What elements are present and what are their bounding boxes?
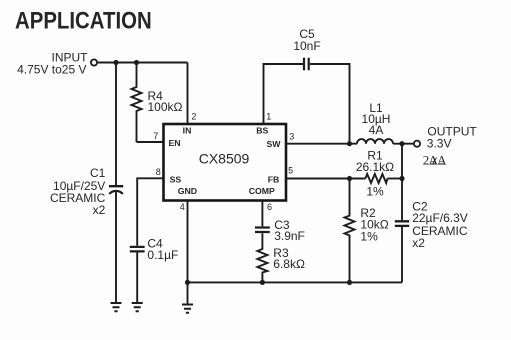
- svg-text:0.1µF: 0.1µF: [147, 248, 178, 262]
- label C5: [293, 27, 320, 53]
- svg-text:C1: C1: [90, 166, 106, 180]
- pin label SW: [267, 139, 282, 149]
- pin number 8: [156, 167, 161, 177]
- svg-text:6.8kΩ: 6.8kΩ: [273, 257, 305, 271]
- svg-text:x2: x2: [412, 236, 425, 250]
- ground (C1): [111, 303, 122, 311]
- pin number 3: [289, 132, 294, 142]
- node GND-rail: [185, 280, 190, 285]
- wire output vertical: [401, 144, 403, 283]
- svg-text:22µF/6.3V: 22µF/6.3V: [412, 211, 468, 225]
- output terminal: [414, 141, 420, 147]
- wire input top: [97, 62, 187, 64]
- label R3: [273, 246, 305, 271]
- svg-text:BS: BS: [256, 126, 268, 136]
- pin number 7: [153, 131, 158, 141]
- svg-text:6: 6: [267, 202, 272, 212]
- pin label BS: [256, 126, 268, 136]
- label C1: [50, 166, 106, 217]
- capacitor C1: [109, 186, 123, 194]
- svg-text:3.3V: 3.3V: [427, 136, 452, 150]
- capacitor C4: [130, 247, 145, 252]
- wire bottom rail: [188, 281, 403, 283]
- label OUTPUT: [427, 124, 478, 150]
- resistor R3: [257, 233, 267, 282]
- wire GND vertical: [187, 201, 189, 305]
- ground (GND pin): [182, 305, 193, 313]
- pin label COMP: [249, 186, 275, 196]
- svg-text:8: 8: [156, 167, 161, 177]
- node input-R4: [134, 60, 139, 65]
- pin label GND: [178, 186, 197, 196]
- svg-text:CX8509: CX8509: [199, 151, 250, 167]
- capacitor C3: [255, 228, 270, 233]
- title APPLICATION: [15, 7, 152, 34]
- resistor R4: [132, 63, 142, 143]
- node R3-rail: [260, 280, 265, 285]
- label C4: [147, 237, 178, 262]
- wire C1 branch: [115, 63, 117, 304]
- ground (C4): [132, 303, 143, 311]
- inductor L1: [357, 139, 393, 144]
- node R2-rail: [347, 280, 352, 285]
- pin label SS: [170, 175, 182, 185]
- node FB-R2: [347, 176, 352, 181]
- svg-text:100kΩ: 100kΩ: [148, 100, 183, 114]
- svg-text:SW: SW: [267, 139, 282, 149]
- svg-text:FB: FB: [268, 175, 280, 185]
- wire C5 to SW: [310, 64, 350, 144]
- label R1: [356, 148, 394, 198]
- label INPUT: [17, 50, 88, 76]
- svg-text:APPLICATION: APPLICATION: [15, 7, 152, 34]
- pin number 2: [191, 112, 196, 122]
- resistor R2: [345, 179, 355, 283]
- label L1: [362, 101, 391, 137]
- svg-text:x2: x2: [93, 203, 106, 217]
- pin label EN: [169, 138, 181, 148]
- node input-C1: [113, 60, 118, 65]
- label 2AA: [423, 152, 447, 167]
- label C3: [274, 218, 305, 243]
- svg-text:10nF: 10nF: [293, 39, 320, 53]
- capacitor C5: [304, 58, 309, 71]
- wire R4 to EN: [137, 141, 164, 143]
- pin number 5: [288, 166, 293, 176]
- svg-text:2: 2: [191, 112, 196, 122]
- wire COMP vertical: [261, 201, 263, 227]
- svg-text:4.75V to25 V: 4.75V to25 V: [17, 63, 86, 77]
- pin number 6: [267, 202, 272, 212]
- svg-text:IN: IN: [183, 126, 192, 136]
- op-amp U1 CX8509: [164, 124, 287, 201]
- node C5-SW: [347, 141, 352, 146]
- label R4: [148, 89, 183, 114]
- resistor R1: [365, 174, 387, 183]
- svg-text:4: 4: [180, 202, 185, 212]
- pin number 4: [180, 202, 185, 212]
- svg-text:EN: EN: [169, 138, 181, 148]
- node R1-output: [399, 176, 404, 181]
- wire SS branch: [137, 178, 163, 303]
- pin label FB: [268, 175, 280, 185]
- pin label IN: [183, 126, 192, 136]
- svg-text:5: 5: [288, 166, 293, 176]
- input terminal: [91, 59, 97, 65]
- label C2: [412, 200, 468, 251]
- wire BS to C5: [264, 64, 304, 124]
- svg-text:GND: GND: [178, 186, 197, 196]
- svg-text:4A: 4A: [369, 123, 384, 137]
- svg-text:3.9nF: 3.9nF: [274, 229, 305, 243]
- svg-text:3: 3: [289, 132, 294, 142]
- pin number 1: [266, 112, 271, 122]
- svg-text:SS: SS: [170, 175, 182, 185]
- wire SW line: [286, 143, 414, 145]
- svg-text:1%: 1%: [366, 184, 384, 198]
- svg-text:26.1kΩ: 26.1kΩ: [356, 160, 394, 174]
- svg-text:7: 7: [153, 131, 158, 141]
- capacitor C2: [395, 221, 409, 226]
- label R2: [360, 206, 388, 243]
- svg-text:1: 1: [266, 112, 271, 122]
- wire pin2: [187, 63, 189, 125]
- node SW-output: [399, 141, 404, 146]
- svg-text:1%: 1%: [360, 229, 378, 243]
- wire FB line: [286, 178, 402, 180]
- svg-text:COMP: COMP: [249, 186, 275, 196]
